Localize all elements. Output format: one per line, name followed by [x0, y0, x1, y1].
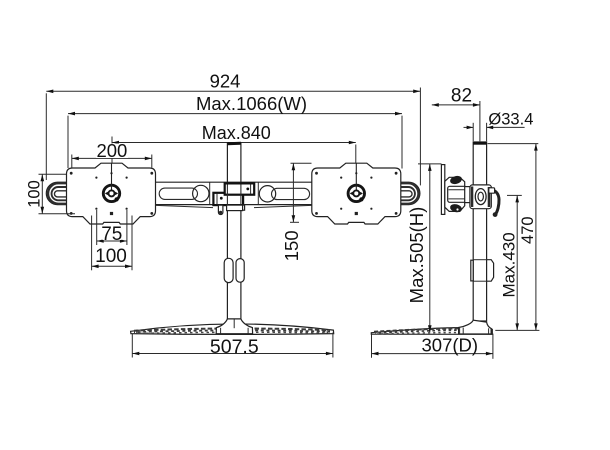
base front view	[131, 324, 334, 334]
side view VESA plate	[441, 165, 470, 215]
left plate screw holes	[70, 172, 153, 215]
svg-text:200: 200	[96, 140, 127, 161]
dimension 100 bottom	[92, 216, 132, 271]
dimension 82	[432, 85, 480, 141]
pole top cap front	[227, 142, 241, 146]
arm end cap rings left	[48, 183, 70, 204]
svg-text:307(D): 307(D)	[422, 334, 479, 355]
svg-text:82: 82	[451, 85, 472, 106]
pole side view	[473, 142, 486, 321]
base side view	[371, 328, 492, 335]
svg-text:100: 100	[26, 180, 44, 208]
right plate screw holes	[315, 172, 397, 215]
svg-text:150: 150	[281, 230, 302, 261]
right plate knob	[348, 163, 364, 201]
arm lower shadow edge right	[254, 205, 312, 207]
dimension 200	[72, 140, 152, 168]
arm section line left	[209, 182, 211, 204]
left plate knob	[103, 163, 119, 201]
side bracket connector	[465, 187, 471, 203]
svg-text:924: 924	[210, 70, 241, 91]
dimension 507.5	[132, 333, 333, 358]
arm slot circle left	[193, 185, 209, 201]
pedestal foot front view	[216, 319, 252, 334]
pole cable clip side	[487, 260, 494, 282]
svg-text:100: 100	[95, 246, 127, 267]
side clamp lever	[489, 188, 499, 217]
dimension Max.430	[499, 195, 522, 330]
clamp lever pin	[218, 205, 223, 214]
side bracket hexagon	[445, 177, 465, 211]
dimension 470	[488, 144, 540, 331]
arm slot stadium left	[159, 188, 197, 199]
pole lines through clamp	[226, 185, 228, 205]
arm end cap rings right	[397, 183, 419, 204]
arm section line right	[257, 182, 259, 204]
clamp screws	[246, 188, 249, 191]
dimension 150	[281, 163, 312, 261]
dimension Max.840	[112, 123, 356, 163]
dimension Max.505(H)	[406, 164, 441, 332]
svg-text:Max.1066(W): Max.1066(W)	[196, 93, 307, 114]
dimension 924	[46, 70, 420, 185]
dimension Max.1066(W)	[68, 93, 402, 169]
dimension 100 left vertical	[26, 174, 76, 213]
side bracket inner block	[448, 186, 467, 202]
arm slot stadium right	[272, 188, 310, 199]
dimension diameter 33.4	[464, 110, 534, 141]
svg-text:507.5: 507.5	[210, 336, 259, 358]
right VESA plate	[312, 163, 401, 224]
left VESA plate	[67, 163, 156, 224]
svg-text:Max.505(H): Max.505(H)	[406, 207, 427, 304]
svg-text:Ø33.4: Ø33.4	[488, 110, 533, 128]
pole front view	[227, 143, 241, 320]
clamp collar	[227, 205, 243, 211]
side bracket bottom screw	[449, 203, 463, 213]
crossbar arm front view	[46, 182, 420, 204]
svg-text:470: 470	[519, 216, 537, 244]
dimension 307(D)	[372, 334, 493, 359]
centre clamp upper plate	[225, 183, 255, 194]
cable clip pills on pole front	[224, 258, 233, 282]
side clamp block	[470, 185, 491, 209]
pole top cap side	[473, 142, 486, 145]
arm slot circle right	[259, 186, 275, 202]
svg-text:Max.430: Max.430	[499, 232, 518, 297]
svg-text:75: 75	[101, 224, 122, 245]
clamp side tab	[243, 205, 245, 210]
dimension 75	[97, 210, 127, 245]
svg-text:Max.840: Max.840	[202, 123, 271, 143]
arm lower shadow edge left	[156, 205, 213, 207]
centre clamp lower plate	[213, 193, 243, 205]
side bracket top screw	[449, 175, 463, 185]
pedestal foot side view	[459, 320, 492, 334]
